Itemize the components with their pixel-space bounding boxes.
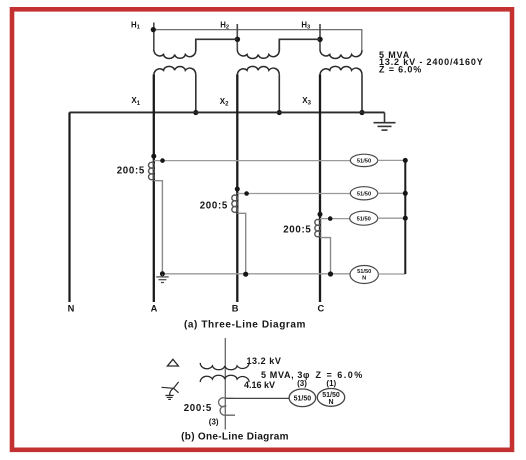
node CT A lead [160,158,165,163]
svg-text:51/50: 51/50 [357,217,371,223]
svg-text:(1): (1) [326,379,336,388]
svg-text:Z = 6.0%: Z = 6.0% [379,65,422,75]
ground (transformer neutral) [374,112,396,130]
node H3 [317,37,322,42]
wire CT A common lead [154,181,163,274]
svg-text:(a) Three-Line Diagram: (a) Three-Line Diagram [184,320,306,331]
wire relay4 right [378,273,405,275]
svg-text:51/50: 51/50 [357,159,371,165]
svg-text:51/50: 51/50 [357,269,371,275]
one-line feeder wire [224,338,226,430]
svg-text:(3): (3) [297,379,307,388]
relay U2 51/50 [350,187,377,200]
svg-text:4.16 kV: 4.16 kV [244,380,275,390]
node common C [328,271,333,276]
svg-text:200:5: 200:5 [200,201,228,212]
CT B polarity node [235,187,240,192]
node coil1-neutral [193,110,198,115]
node H1 [151,27,156,32]
H2 terminal stub [236,24,238,51]
wire relay1 right [378,159,406,161]
svg-text:200:5: 200:5 [184,403,212,414]
primary winding coil2 [237,50,279,58]
wye grounded symbol [162,382,179,400]
node common B [243,272,248,277]
neutral bus wire [70,111,385,113]
svg-text:C: C [317,303,324,313]
wire relay3 right [378,217,406,219]
wire CT B common lead [237,213,245,273]
svg-text:N: N [362,276,366,282]
wire relay2 right [378,192,406,194]
one-line primary winding [200,363,249,370]
primary winding coil3 [320,50,362,58]
one-line CT [219,398,235,416]
CT common bus wire [162,273,350,275]
ground (CT common) [156,274,169,283]
svg-text:51/50: 51/50 [322,392,340,399]
node return 3 [403,216,408,221]
svg-text:13.2 kV: 13.2 kV [247,356,282,366]
relay U3 51/50 [350,211,378,225]
node return 2 [403,191,408,196]
wire CT A lead to relay 1 [154,160,350,162]
relay return wire [404,160,406,274]
node CT C lead [328,216,333,221]
phase B conductor [236,74,238,302]
svg-text:Z = 6.0%: Z = 6.0% [316,370,364,380]
one-line secondary winding [200,375,249,382]
svg-text:200:5: 200:5 [283,225,311,236]
svg-text:(b) One-Line Diagram: (b) One-Line Diagram [181,432,289,443]
secondary winding coil1 [154,66,196,74]
CT C secondary winding [315,219,321,236]
svg-text:51/50: 51/50 [357,192,371,198]
H bus wire (top line from H1 to coil3 right end) [153,30,361,51]
phase A conductor [153,74,155,302]
secondary winding coil3 [320,66,362,74]
node coil3-neutral [359,110,364,115]
node H2 [235,37,240,42]
node common A [160,271,165,276]
node CT B lead [244,191,249,196]
CT A polarity node [151,154,156,159]
CT C polarity node [318,212,323,217]
relay 51/50 N (one-line) [317,389,344,407]
svg-text:(3): (3) [209,418,219,427]
wire CT C common lead [320,238,331,274]
N conductor wire [68,112,70,302]
phase C conductor [319,74,321,302]
svg-text:N: N [68,303,75,313]
svg-text:51/50: 51/50 [294,395,312,402]
primary winding coil1 [154,50,196,58]
wire CT C lead to relay 3 [320,218,350,220]
relay U4 51/50 N [350,266,378,284]
wire coil2 right riser to neutral bus [278,74,280,112]
svg-text:N: N [328,399,333,406]
svg-text:A: A [151,303,158,313]
delta symbol [167,359,178,366]
H1 terminal stub [153,23,155,51]
relay U1 51/50 [350,154,377,166]
wire delta link coil2-H3 [279,39,320,50]
node coil2-neutral [277,110,282,115]
CT B secondary winding [232,195,238,212]
wire delta link coil1-H2 [196,39,238,50]
wire coil1 right riser to neutral bus [195,74,197,112]
node return 1 [403,158,408,163]
relay 51/50 (one-line) [289,389,316,407]
H3 terminal stub [319,24,321,51]
wire CT B lead to relay 2 [237,193,350,195]
wire coil3 right riser to neutral bus [361,74,363,112]
wire one-line CT to relays [225,397,289,399]
svg-text:B: B [232,303,239,313]
secondary winding coil2 [237,66,279,74]
svg-text:200:5: 200:5 [117,166,145,177]
CT A secondary winding [149,162,155,179]
